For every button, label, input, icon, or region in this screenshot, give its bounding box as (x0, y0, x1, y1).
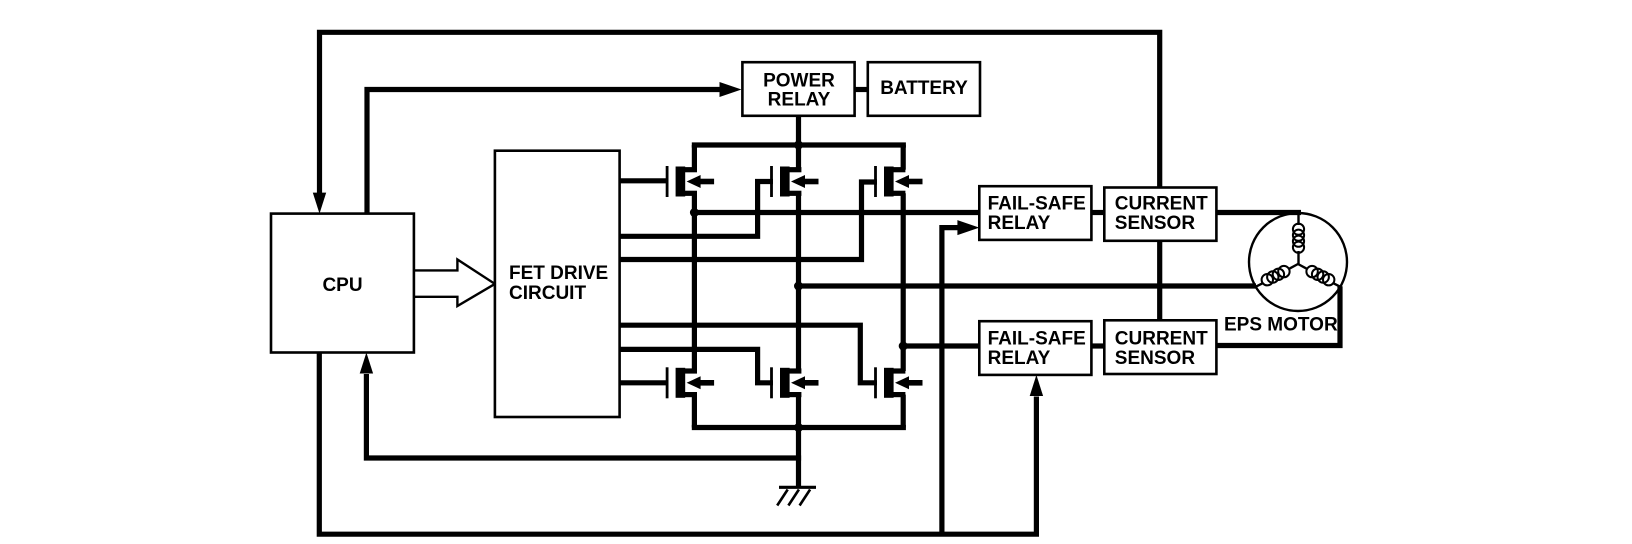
wire top rail from CPU top to right bus (320, 32, 1160, 196)
transistor Q5 (770, 367, 818, 398)
wire CPU bottom rail to FAIL-SAFE RELAY 2 arrow (319, 353, 1036, 535)
svg-text:RELAY: RELAY (988, 213, 1051, 234)
coil left (1262, 266, 1290, 286)
svg-text:CURRENT: CURRENT (1115, 194, 1208, 215)
wire drain riser Q1 (692, 145, 697, 170)
wire gate feed Q5 (620, 349, 773, 382)
wire to ground (796, 428, 801, 487)
wire gate feed Q6 (620, 325, 877, 383)
arrow into FAIL-SAFE RELAY 2 (1030, 375, 1043, 396)
svg-text:EPS MOTOR: EPS MOTOR (1224, 314, 1338, 335)
svg-text:CIRCUIT: CIRCUIT (509, 283, 586, 304)
wire phase V vertical Q2 source to Q5 drain (796, 193, 801, 371)
POWER RELAY box (742, 62, 854, 116)
svg-text:CURRENT: CURRENT (1115, 329, 1208, 350)
transistor Q1 (666, 166, 714, 197)
node B phase V dot (794, 282, 803, 291)
node dot power rail (794, 141, 803, 150)
FET DRIVE CIRCUIT box (495, 151, 620, 417)
transistor Q3 (874, 166, 922, 197)
wire CURRENT SENSOR 1 to EPS MOTOR top (1216, 210, 1301, 215)
arrow into CPU bottom (360, 353, 373, 374)
wire feedback ground to CPU bottom (366, 374, 801, 458)
wire phase W vertical Q3 source to Q6 drain (901, 193, 906, 371)
wire right bus lower segment (1157, 241, 1162, 320)
svg-text:FET DRIVE: FET DRIVE (509, 263, 608, 284)
bridge top rail (692, 142, 906, 147)
winding wye right branch (1298, 264, 1340, 287)
wire Q4 source drop (692, 395, 697, 428)
block arrow CPU to FET DRIVE CIRCUIT (414, 260, 495, 307)
svg-text:FAIL-SAFE: FAIL-SAFE (988, 329, 1086, 350)
svg-text:RELAY: RELAY (768, 90, 831, 111)
wire source rail (692, 425, 906, 430)
coil right (1306, 266, 1334, 286)
svg-text:SENSOR: SENSOR (1115, 348, 1196, 369)
wire bottom rail to FAIL-SAFE RELAY 1 arrow (942, 228, 958, 535)
wire FAIL-SAFE RELAY 1 to CURRENT SENSOR 1 (1091, 210, 1104, 215)
svg-text:POWER: POWER (763, 71, 835, 92)
transistor Q2 (770, 166, 818, 197)
svg-text:BATTERY: BATTERY (880, 78, 968, 99)
arrow into FAIL-SAFE RELAY 1 (957, 220, 979, 235)
svg-text:SENSOR: SENSOR (1115, 213, 1196, 234)
wire gate feed Q1 (620, 178, 668, 183)
op-amp CPU box (271, 214, 414, 353)
wire CPU top to POWER RELAY (367, 90, 721, 214)
node C phase W dot (899, 342, 908, 351)
wire phase U vertical Q1 source to Q4 drain (692, 193, 697, 371)
wire phase W to FAIL-SAFE RELAY 2 (903, 343, 979, 348)
EPS MOTOR circle (1249, 213, 1347, 311)
CURRENT SENSOR 2 box (1104, 320, 1216, 374)
wire CURRENT SENSOR 2 to EPS MOTOR right (1216, 286, 1340, 345)
FAIL-SAFE RELAY 1 box (979, 186, 1091, 240)
FAIL-SAFE RELAY 2 box (979, 321, 1091, 375)
wire Q6 source drop (901, 395, 906, 428)
wire phase U to FAIL-SAFE RELAY 1 (694, 210, 979, 215)
wire FAIL-SAFE RELAY 2 to CURRENT SENSOR 2 (1091, 343, 1104, 348)
wire phase V to EPS MOTOR (799, 283, 1257, 288)
BATTERY box (868, 62, 980, 116)
coil top (1293, 224, 1304, 253)
ground (777, 487, 816, 505)
node D source rail dot (794, 423, 803, 432)
svg-text:FAIL-SAFE: FAIL-SAFE (988, 194, 1086, 215)
svg-text:RELAY: RELAY (988, 348, 1051, 369)
wire gate feed Q3 (620, 182, 877, 260)
winding wye top branch (1297, 213, 1299, 264)
arrow into CPU top (313, 193, 326, 214)
transistor Q6 (874, 367, 922, 398)
arrow into POWER RELAY (720, 82, 742, 97)
transistor Q4 (666, 367, 714, 398)
svg-text:CPU: CPU (322, 275, 362, 296)
wire POWER RELAY to bridge rail (796, 116, 801, 170)
CURRENT SENSOR 1 box (1104, 188, 1216, 241)
wire Q5 source drop (796, 395, 801, 428)
wire drain riser Q3 (901, 145, 906, 170)
wire POWER RELAY to BATTERY (855, 87, 868, 92)
winding wye left branch (1256, 264, 1298, 287)
node A phase U dot (690, 208, 699, 217)
wire gate feed Q4 (620, 380, 668, 385)
wire gate feed Q2 (620, 182, 773, 237)
